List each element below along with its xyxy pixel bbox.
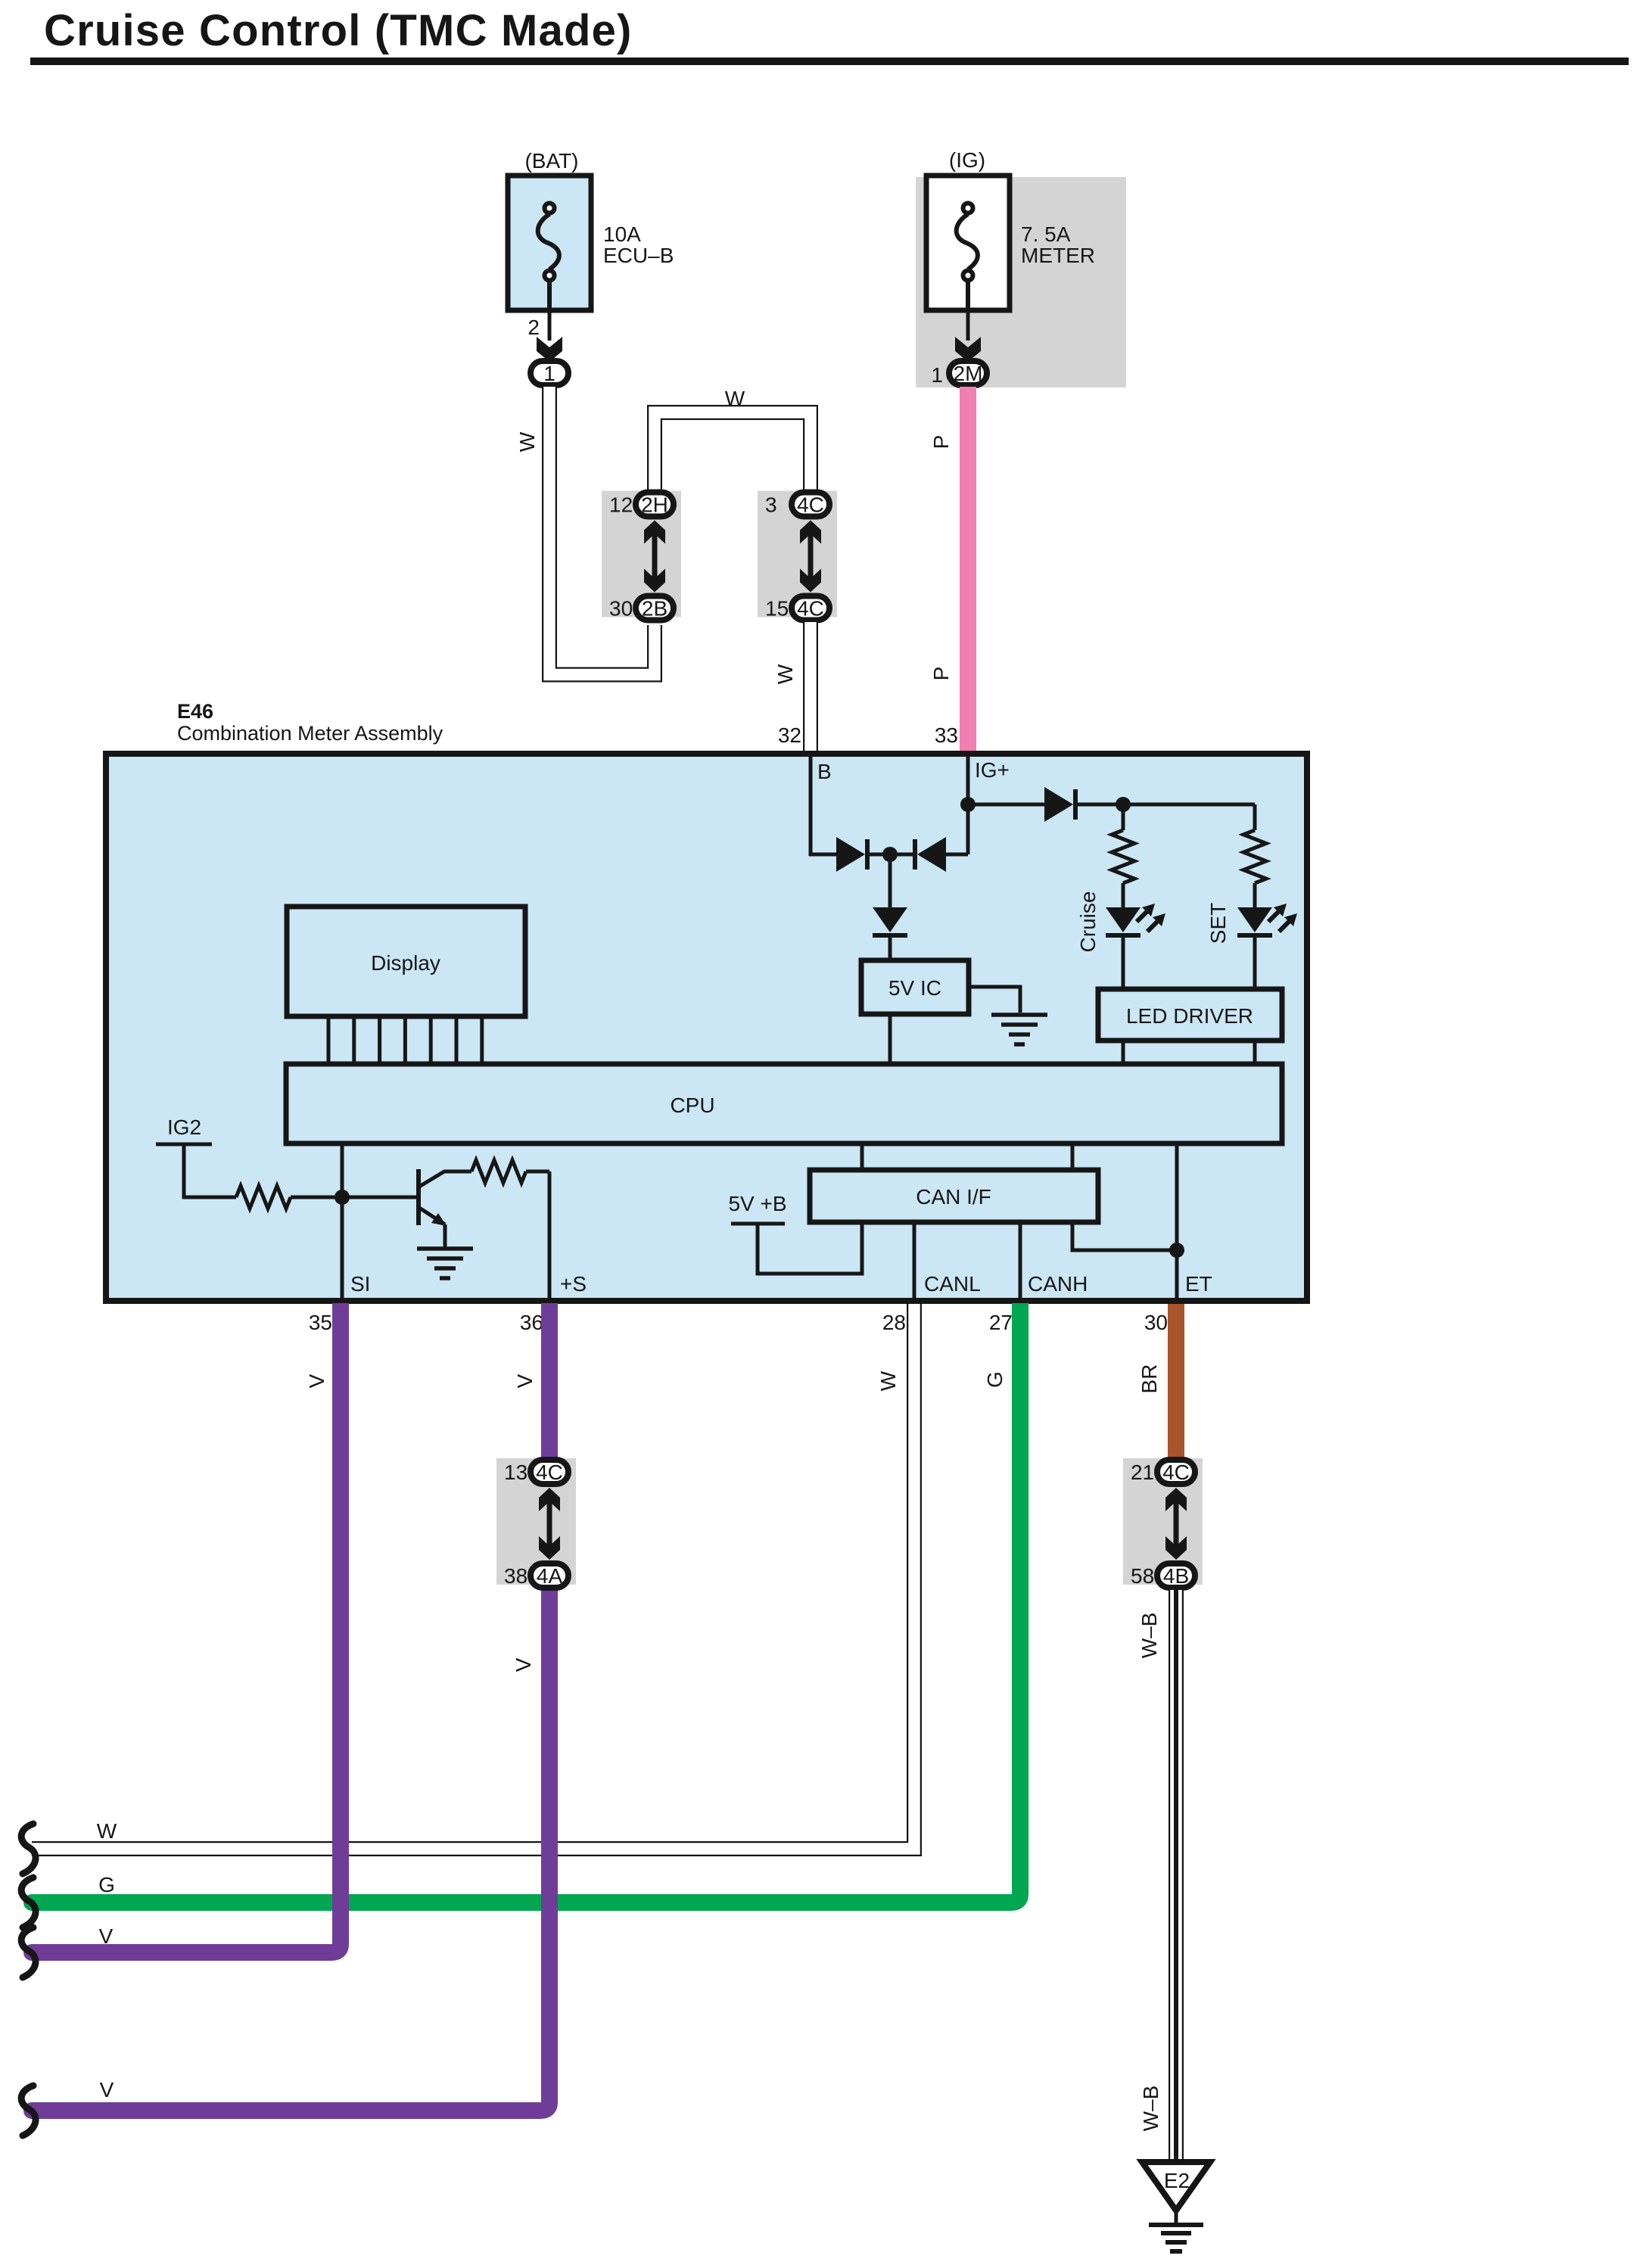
pin 33 label — [935, 723, 958, 747]
wire W bridge 2H to 4C — [655, 412, 811, 490]
pin 36 label — [520, 1311, 543, 1334]
pin ET label — [1185, 1272, 1212, 1296]
connector 4C pin 13 — [504, 1460, 568, 1484]
svg-text:4C: 4C — [536, 1461, 563, 1484]
svg-text:V: V — [512, 1657, 535, 1672]
label W horizontal — [97, 1819, 117, 1843]
label 7.5A METER — [1021, 222, 1095, 267]
svg-text:32: 32 — [778, 723, 801, 747]
resistor cruise — [1112, 830, 1134, 883]
pass-through arrow 4C-4C — [800, 521, 821, 593]
junction block background 4C/4C — [758, 491, 837, 618]
wire SI net — [341, 1143, 344, 1301]
svg-text:12: 12 — [609, 493, 633, 517]
wire D4 to 5V IC — [888, 937, 892, 960]
wire fuse ECU-B to connector 1 — [548, 310, 552, 341]
transistor Q1 collector — [419, 1171, 471, 1187]
pass-through arrow 2H-2B — [644, 521, 665, 593]
svg-text:4C: 4C — [797, 597, 824, 621]
svg-text:CAN I/F: CAN I/F — [916, 1185, 991, 1209]
ground E2 stem — [1175, 2210, 1178, 2223]
svg-text:1: 1 — [931, 363, 943, 387]
label G horizontal — [98, 1873, 115, 1896]
svg-text:Display: Display — [371, 951, 440, 975]
pin 2 label — [527, 316, 540, 339]
svg-text:CPU: CPU — [670, 1094, 714, 1117]
wire D3 to SET branch — [1075, 803, 1255, 807]
fuse 10A ECU-B — [508, 176, 591, 310]
wire CANL net — [913, 1222, 916, 1301]
label G pin27 wire — [983, 1371, 1007, 1388]
label E46 — [177, 700, 213, 723]
connector 1 — [531, 361, 568, 385]
pin 35 label — [309, 1311, 332, 1334]
label W left wire — [515, 431, 539, 452]
svg-text:4C: 4C — [797, 493, 824, 517]
svg-text:ET: ET — [1185, 1272, 1212, 1296]
pass-through arrow 4C-4A — [539, 1488, 560, 1560]
node 5V +B — [728, 1192, 786, 1215]
wire W-B to ground — [1169, 1590, 1184, 2162]
wire CPU to CAN IF right — [1071, 1143, 1075, 1170]
svg-text:IG+: IG+ — [975, 758, 1010, 782]
pin SI label — [350, 1272, 370, 1296]
diode D1 — [836, 837, 867, 872]
connector 2H pin 12 — [609, 493, 674, 517]
label 10A ECU-B — [603, 222, 674, 267]
svg-text:V: V — [100, 2078, 114, 2102]
title underline — [30, 58, 1629, 65]
wire B net — [811, 754, 836, 854]
wire CAN IF to ET — [1072, 1222, 1177, 1250]
svg-text:METER: METER — [1021, 244, 1095, 267]
wire SI node to base — [342, 1196, 417, 1199]
label (IG) — [949, 148, 985, 172]
svg-text:38: 38 — [504, 1564, 527, 1588]
junction IG+ — [960, 797, 976, 812]
label V pin35 wire — [305, 1374, 328, 1388]
svg-text:2: 2 — [527, 316, 540, 339]
CAN I/F block — [810, 1170, 1098, 1222]
wire +S net — [548, 1171, 552, 1301]
label V pin36 lower — [512, 1657, 535, 1672]
wire IG+ to D3 — [968, 803, 1044, 807]
wire node to D4 — [888, 854, 892, 907]
Display block — [287, 907, 525, 1016]
LED DRIVER block — [1098, 989, 1282, 1041]
transistor Q1 emitter — [419, 1208, 447, 1226]
5V +B supply bar — [731, 1222, 785, 1226]
svg-text:7. 5A: 7. 5A — [1021, 222, 1071, 246]
label W to pin 32 — [773, 664, 797, 684]
svg-text:2H: 2H — [641, 493, 668, 517]
label V horizontal 2 — [100, 2078, 114, 2102]
svg-text:30: 30 — [609, 597, 633, 621]
wire LED driver to CPU right — [1253, 1041, 1257, 1064]
svg-text:13: 13 — [504, 1461, 527, 1484]
connector 2M — [949, 361, 987, 385]
wire cruise branch — [1122, 804, 1125, 830]
wire LED cruise to LED driver — [1122, 937, 1125, 989]
junction cruise branch — [1116, 797, 1131, 812]
pin CANL label — [924, 1272, 981, 1296]
label BR — [1137, 1364, 1161, 1394]
svg-text:58: 58 — [1131, 1564, 1154, 1588]
svg-text:1: 1 — [543, 362, 555, 385]
wire IG+ vertical — [966, 754, 970, 854]
pass-through arrow 4C-4B — [1165, 1488, 1187, 1560]
svg-text:P: P — [929, 667, 953, 681]
svg-text:W: W — [773, 664, 797, 684]
wire resistor to LED SET — [1253, 883, 1257, 907]
label W pin28 wire — [876, 1370, 900, 1391]
svg-text:P: P — [929, 435, 953, 450]
svg-text:33: 33 — [935, 723, 958, 747]
junction ET — [1169, 1243, 1184, 1258]
wire V pin 36 lower — [32, 1590, 549, 2111]
wire resistor to SI node — [291, 1196, 342, 1199]
resistor collector — [471, 1160, 526, 1183]
svg-text:+S: +S — [560, 1272, 587, 1296]
ground E2 triangle — [1142, 2162, 1210, 2210]
svg-text:B: B — [817, 760, 832, 783]
svg-text:15: 15 — [765, 597, 789, 621]
junction diodes — [882, 847, 898, 862]
wire 5V IC to CPU — [888, 1014, 892, 1064]
regulator 5V IC — [861, 960, 969, 1014]
ground 5V IC — [991, 1015, 1047, 1044]
svg-text:(IG): (IG) — [949, 148, 985, 172]
svg-text:G: G — [983, 1371, 1007, 1388]
node IG2 — [167, 1115, 201, 1139]
svg-text:W: W — [97, 1819, 117, 1843]
svg-text:V: V — [99, 1924, 114, 1948]
svg-text:SET: SET — [1206, 903, 1230, 944]
ground Q1 emitter — [417, 1249, 473, 1278]
resistor SET — [1243, 830, 1266, 883]
connector 4C pin 3 — [765, 493, 829, 517]
wire SET branch — [1253, 804, 1257, 830]
svg-text:4B: 4B — [1163, 1564, 1189, 1588]
junction block background 2M — [916, 177, 1126, 387]
wire CPU to CAN IF left — [860, 1143, 864, 1170]
wire display bus — [328, 1016, 482, 1064]
arrow into connector 1 — [537, 337, 562, 362]
wire V pin 35 — [32, 1303, 341, 1952]
svg-text:ECU–B: ECU–B — [603, 244, 674, 267]
pin 30 label — [1144, 1311, 1168, 1334]
connector 4C pin 21 — [1131, 1460, 1195, 1484]
wire LED SET to LED driver — [1253, 937, 1257, 989]
diode D4 — [873, 907, 907, 935]
svg-text:5V IC: 5V IC — [888, 976, 941, 1000]
wire IG2 to resistor — [184, 1144, 236, 1197]
svg-text:W: W — [515, 431, 539, 452]
wire resistor to LED cruise — [1122, 883, 1125, 907]
transistor Q1 base bar — [416, 1169, 421, 1225]
wire D1 to node — [867, 853, 890, 857]
svg-text:2B: 2B — [642, 597, 668, 621]
wire emitter to ground — [443, 1224, 447, 1249]
svg-text:3: 3 — [765, 493, 777, 517]
junction block background 2H/2B — [602, 491, 681, 618]
connector 2B pin 30 — [609, 596, 674, 621]
wire resistor to +S — [526, 1170, 549, 1174]
label P lower — [929, 667, 953, 681]
arrow into connector 2M — [955, 337, 981, 362]
svg-text:4A: 4A — [537, 1564, 563, 1588]
squiggle G — [21, 1878, 36, 1927]
svg-text:5V +B: 5V +B — [728, 1192, 786, 1215]
svg-text:BR: BR — [1137, 1364, 1161, 1394]
connector 4C pin 15 — [765, 596, 829, 621]
ECU E46 Combination Meter Assembly box — [106, 754, 1307, 1301]
svg-text:SI: SI — [350, 1272, 370, 1296]
diode D3 — [1044, 787, 1075, 822]
label P upper — [929, 435, 953, 450]
svg-text:Cruise: Cruise — [1076, 891, 1100, 953]
junction SI — [335, 1190, 350, 1205]
label (BAT) — [524, 149, 578, 173]
svg-text:V: V — [305, 1374, 328, 1388]
svg-text:CANL: CANL — [924, 1272, 981, 1296]
wire W from connector 1 to 2B — [549, 387, 655, 675]
node B — [817, 760, 832, 783]
wire fuse METER to connector 2M — [966, 310, 970, 341]
svg-text:V: V — [513, 1374, 537, 1388]
pin +S label — [560, 1272, 587, 1296]
svg-text:IG2: IG2 — [167, 1115, 201, 1139]
fuse 7.5A METER — [926, 176, 1010, 310]
svg-text:4C: 4C — [1162, 1461, 1190, 1484]
label Combination Meter Assembly — [177, 722, 443, 745]
svg-text:W: W — [876, 1370, 900, 1391]
squiggle W — [21, 1824, 36, 1874]
svg-text:W–B: W–B — [1139, 2086, 1162, 2132]
diode D2 — [915, 837, 946, 872]
svg-text:27: 27 — [989, 1311, 1013, 1334]
wire W from 15-4C to pin 32 — [803, 622, 818, 754]
svg-text:Cruise Control (TMC Made): Cruise Control (TMC Made) — [44, 6, 633, 55]
wire ET net — [1175, 1143, 1179, 1301]
wire LED driver to CPU left — [1122, 1041, 1125, 1064]
svg-text:W: W — [725, 387, 745, 410]
label SET — [1206, 903, 1230, 944]
squiggle V2 — [21, 2086, 36, 2136]
svg-text:28: 28 — [882, 1311, 906, 1334]
svg-text:LED DRIVER: LED DRIVER — [1126, 1004, 1253, 1028]
wire P pin 33 — [960, 387, 976, 754]
label W-B upper — [1137, 1613, 1161, 1659]
wire node to D2 — [890, 853, 915, 857]
label W bridge — [725, 387, 745, 410]
svg-text:35: 35 — [309, 1311, 332, 1334]
node IG+ — [975, 758, 1010, 782]
wire W pin 28 — [32, 1304, 914, 1849]
svg-text:W–B: W–B — [1137, 1613, 1161, 1659]
LED SET — [1237, 904, 1297, 935]
wire G pin 27 — [32, 1303, 1020, 1902]
pin 28 label — [882, 1311, 906, 1334]
label W-B lower — [1139, 2086, 1162, 2132]
resistor R-IG2 — [236, 1186, 291, 1209]
svg-text:Combination Meter Assembly: Combination Meter Assembly — [177, 722, 443, 745]
squiggle V1 — [21, 1927, 36, 1977]
connector 4A pin 38 — [504, 1563, 568, 1588]
wire 5V +B to CAN IF — [758, 1222, 862, 1274]
wire CANH net — [1019, 1222, 1022, 1301]
svg-text:E2: E2 — [1164, 2169, 1190, 2192]
svg-text:21: 21 — [1131, 1461, 1154, 1484]
pin 32 label — [778, 723, 801, 747]
wire BR pin 30 — [1168, 1304, 1184, 1458]
wire V pin 36 upper — [541, 1303, 558, 1458]
label V horizontal 1 — [99, 1924, 114, 1948]
ground E2 bars — [1149, 2225, 1203, 2251]
svg-text:G: G — [98, 1873, 115, 1896]
CPU block — [286, 1064, 1282, 1143]
junction block background 4C/4A — [496, 1458, 576, 1585]
IG2 supply bar — [156, 1143, 212, 1146]
title Cruise Control (TMC Made) — [44, 6, 633, 55]
svg-text:30: 30 — [1144, 1311, 1168, 1334]
wire 5V IC to ground — [969, 987, 1020, 1013]
svg-text:10A: 10A — [603, 222, 641, 246]
svg-text:(BAT): (BAT) — [524, 149, 578, 173]
label V pin36 wire — [513, 1374, 537, 1388]
pin 1 label — [931, 363, 943, 387]
svg-text:36: 36 — [520, 1311, 543, 1334]
wire D2 to IG+ drop — [946, 853, 968, 857]
svg-text:E46: E46 — [177, 700, 213, 723]
connector 4B pin 58 — [1131, 1563, 1195, 1588]
svg-text:CANH: CANH — [1028, 1272, 1088, 1296]
LED Cruise — [1106, 904, 1165, 935]
pin 27 label — [989, 1311, 1013, 1334]
junction block background 4C/4B — [1123, 1458, 1203, 1585]
svg-text:2M: 2M — [954, 362, 983, 385]
label Cruise — [1076, 891, 1100, 953]
pin CANH label — [1028, 1272, 1088, 1296]
